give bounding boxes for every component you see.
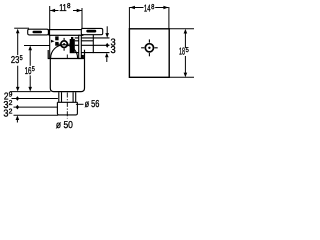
svg-text:5: 5 — [186, 47, 189, 54]
svg-text:5: 5 — [20, 55, 23, 62]
pipe step line — [57, 101, 77, 103]
dim 14-8 right extension — [168, 7, 170, 29]
svg-text:8: 8 — [67, 3, 71, 10]
svg-text:16: 16 — [25, 66, 32, 77]
box top right tab — [81, 55, 84, 59]
dim 14-8 left extension — [128, 7, 130, 29]
box top left tab — [47, 50, 49, 59]
body left edge — [49, 35, 51, 58]
right wall bracket — [81, 28, 102, 34]
dim 18-5 line — [184, 33, 186, 48]
up arrow below y115.3 — [16, 115, 20, 120]
dim 11-8 dimension line — [50, 10, 58, 12]
dim 14-8 dimension line — [130, 7, 144, 9]
dia 56 leader — [76, 103, 84, 105]
dim line y115.3 — [14, 114, 59, 116]
dim 11-8 right extension line — [81, 8, 83, 29]
pipe centerline — [66, 93, 68, 119]
plate bottom extension line right — [169, 76, 194, 78]
diamond on y107.1 — [16, 105, 19, 110]
plate top extension line right — [169, 28, 194, 30]
body right edge — [92, 35, 94, 53]
connection line y45 — [75, 44, 110, 46]
svg-text:8: 8 — [151, 4, 154, 11]
outlet pipe inner walls — [61, 92, 63, 102]
flush valve target circle — [61, 41, 68, 48]
dim 16-5 line — [29, 50, 31, 66]
dim 3 diamond on line y45 — [106, 43, 109, 48]
svg-text:2: 2 — [9, 100, 13, 107]
left bracket slot — [33, 31, 43, 34]
internal flush pipe — [79, 35, 82, 58]
svg-text:ø 56: ø 56 — [85, 99, 100, 110]
dim 11-8 right arrowhead — [77, 9, 82, 13]
dim line y98.5 — [12, 98, 58, 100]
svg-text:2: 2 — [9, 108, 13, 115]
svg-text:3: 3 — [111, 45, 117, 56]
connection line y38 — [75, 37, 110, 39]
right bracket slot — [86, 30, 96, 33]
rail right end cap — [81, 29, 83, 35]
valve dark bar — [70, 39, 75, 53]
svg-text:23: 23 — [11, 55, 20, 66]
diamond on y98.5 — [16, 96, 19, 101]
svg-text:11: 11 — [59, 3, 67, 14]
dim line y107.1 — [14, 106, 58, 108]
dim 23-5 top reference line — [14, 27, 29, 29]
plate target circle — [145, 44, 153, 52]
connection line y53 — [75, 52, 110, 54]
svg-text:9: 9 — [9, 92, 13, 99]
svg-text:5: 5 — [32, 66, 35, 73]
body bottom extension line — [10, 91, 51, 93]
lower body box — [50, 50, 84, 92]
svg-text:ø 50: ø 50 — [56, 120, 73, 131]
supply axis line — [24, 45, 50, 47]
pipe collar — [57, 102, 77, 115]
cover plate — [129, 29, 169, 78]
svg-text:18: 18 — [179, 47, 185, 58]
box top line — [48, 58, 85, 60]
dim 11-8 left extension line — [49, 6, 51, 29]
outlet pipe outer walls — [58, 92, 60, 102]
dim 3 lower arrow (up) — [105, 53, 109, 58]
inlet fitting — [55, 36, 58, 40]
dim 3 upper arrow (down) — [106, 26, 108, 33]
dim 11-8 left arrowhead — [50, 9, 55, 13]
valve dome arc — [51, 45, 78, 59]
rail left end cap — [48, 29, 50, 35]
mounting rail — [49, 30, 82, 36]
dim 23-5 line — [17, 33, 19, 55]
svg-text:14: 14 — [144, 4, 151, 15]
centerline tick upper — [66, 55, 68, 59]
left wall bracket — [28, 29, 49, 35]
